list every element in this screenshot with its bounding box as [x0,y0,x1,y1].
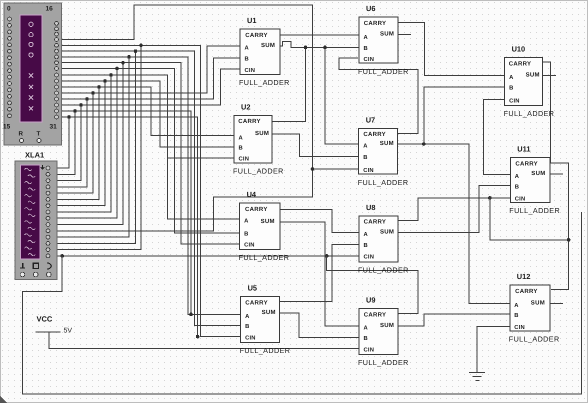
svg-text:SUM: SUM [261,42,275,49]
svg-text:FULL_ADDER: FULL_ADDER [509,206,560,215]
svg-text:FULL_ADDER: FULL_ADDER [233,167,284,176]
svg-text:B: B [364,336,368,342]
svg-text:SUM: SUM [531,170,545,177]
svg-text:SUM: SUM [380,322,394,329]
svg-text:CIN: CIN [509,97,520,104]
svg-text:SUM: SUM [526,72,540,79]
svg-text:CARRY: CARRY [364,311,387,318]
svg-text:SUM: SUM [380,228,394,235]
svg-text:FULL_ADDER: FULL_ADDER [358,265,409,274]
svg-text:B: B [239,146,243,152]
svg-text:0: 0 [7,6,11,13]
svg-text:FULL_ADDER: FULL_ADDER [358,178,409,187]
svg-text:B: B [363,155,367,161]
svg-text:CIN: CIN [239,156,250,163]
svg-text:CIN: CIN [514,324,525,331]
svg-text:SUM: SUM [380,30,394,37]
svg-text:SUM: SUM [380,140,394,147]
svg-text:16: 16 [46,6,54,13]
svg-text:FULL_ADDER: FULL_ADDER [509,334,560,343]
svg-text:CARRY: CARRY [515,161,538,168]
svg-text:U6: U6 [366,4,375,13]
svg-text:FULL_ADDER: FULL_ADDER [504,109,555,118]
svg-text:CARRY: CARRY [245,32,268,39]
svg-text:U8: U8 [366,203,375,212]
svg-text:B: B [245,324,249,330]
svg-text:FULL_ADDER: FULL_ADDER [239,253,290,262]
svg-text:SUM: SUM [255,130,269,137]
svg-text:SUM: SUM [261,218,275,225]
svg-text:U9: U9 [366,296,375,305]
svg-text:U7: U7 [366,115,375,124]
svg-text:U2: U2 [241,102,250,111]
svg-text:B: B [509,86,513,92]
svg-text:U1: U1 [247,16,256,25]
svg-text:CARRY: CARRY [238,118,261,125]
svg-text:CARRY: CARRY [515,288,538,295]
svg-text:XLA1: XLA1 [25,151,44,160]
svg-text:FULL_ADDER: FULL_ADDER [358,67,409,76]
svg-text:CARRY: CARRY [509,60,532,67]
svg-text:CIN: CIN [244,242,255,249]
svg-text:B: B [244,231,248,237]
svg-text:CARRY: CARRY [245,206,268,213]
svg-text:CARRY: CARRY [364,20,387,27]
svg-text:B: B [364,46,368,52]
svg-text:CARRY: CARRY [363,131,386,138]
svg-text:CARRY: CARRY [364,219,387,226]
svg-text:R: R [19,131,24,138]
svg-text:CIN: CIN [363,167,374,174]
svg-text:31: 31 [50,124,58,131]
svg-text:CIN: CIN [245,67,256,74]
svg-text:U11: U11 [517,145,530,154]
svg-text:VCC: VCC [37,315,53,324]
svg-text:FULL_ADDER: FULL_ADDER [240,346,291,355]
svg-text:U5: U5 [248,284,257,293]
svg-text:SUM: SUM [531,300,545,307]
svg-text:SUM: SUM [262,309,276,316]
svg-text:CIN: CIN [515,196,526,203]
svg-text:U10: U10 [512,45,526,54]
svg-text:15: 15 [3,124,11,131]
svg-text:CIN: CIN [245,334,256,341]
svg-text:B: B [515,184,519,190]
svg-text:CIN: CIN [364,56,375,63]
svg-text:U4: U4 [247,190,257,199]
svg-text:B: B [364,243,368,249]
svg-text:FULL_ADDER: FULL_ADDER [358,358,409,367]
svg-text:T: T [37,131,41,138]
svg-text:B: B [514,313,518,319]
svg-text:CIN: CIN [364,254,375,261]
svg-text:FULL_ADDER: FULL_ADDER [239,78,290,87]
svg-text:CIN: CIN [364,346,375,353]
svg-text:CARRY: CARRY [245,299,268,306]
svg-text:U12: U12 [517,272,531,281]
svg-text:5V: 5V [64,328,73,335]
svg-text:B: B [245,56,249,62]
